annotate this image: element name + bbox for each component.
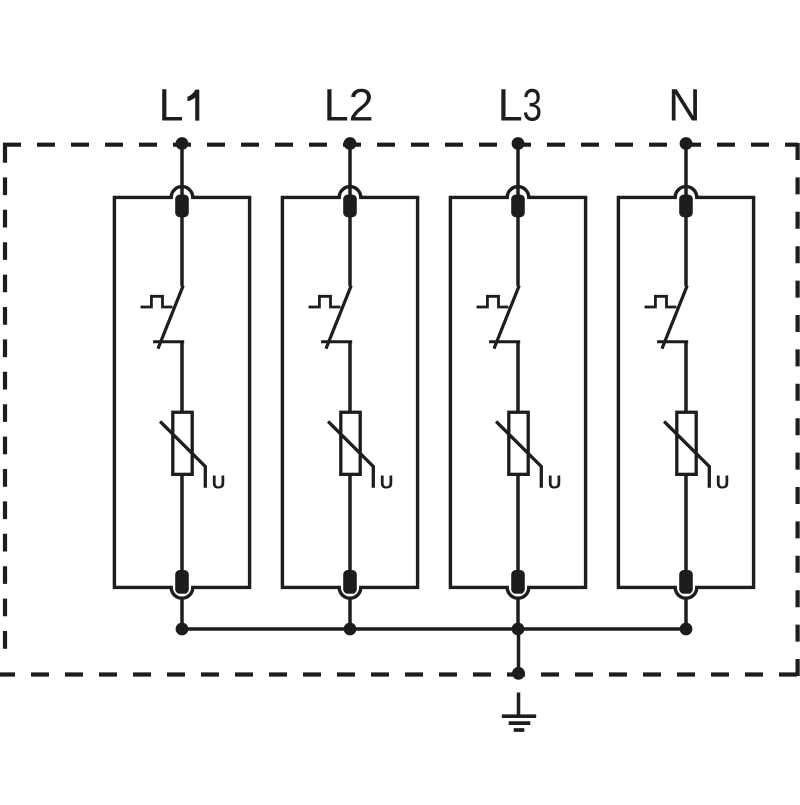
- node L2 junction dot on enclosure boundary: [344, 137, 357, 150]
- disconnector lower contact (module 3): [489, 340, 520, 343]
- wire: lower terminal to PE bus (module 3): [516, 599, 520, 629]
- module 4 upper plug-in terminal contact: [679, 195, 693, 218]
- disconnector lower contact (module 4): [657, 340, 688, 343]
- node L3 label: [498, 79, 542, 130]
- wire: lower terminal to PE bus (module 1): [180, 599, 184, 629]
- protection module 3 (L3) outline box: [450, 187, 585, 599]
- junction dot module 1 on PE bus: [176, 623, 189, 636]
- module 3 upper plug-in terminal contact: [511, 195, 525, 218]
- junction dot module 4 on PE bus: [680, 623, 693, 636]
- wire: upper terminal to disconnector (module 2): [348, 215, 352, 286]
- PE bus wire: [182, 627, 686, 631]
- device enclosure dashed boundary: right edge: [795, 143, 799, 676]
- device enclosure dashed boundary: top edge: [3, 143, 798, 147]
- varistor RV1 body (module 1): [173, 412, 192, 474]
- wire: varistor to lower terminal (module 1): [180, 473, 184, 572]
- node N junction dot on enclosure boundary: [680, 137, 693, 150]
- wire: lower terminal to PE bus (module 4): [684, 599, 688, 629]
- svg-text:3: 3: [522, 79, 542, 130]
- thermal trip pulse symbol (module 2): [309, 296, 341, 307]
- module 4 lower plug-in terminal contact: [679, 570, 693, 594]
- wire: disconnector to varistor (module 1): [180, 342, 184, 413]
- ground (earth) symbol: [502, 716, 536, 730]
- wire: boundary to earth symbol: [517, 693, 521, 717]
- thermal trip pulse symbol (module 3): [477, 296, 509, 307]
- varistor RV2 body (module 2): [341, 412, 360, 474]
- thermal disconnector switch blade (module 1): [158, 286, 183, 349]
- thermal disconnector switch blade (module 4): [662, 286, 687, 349]
- varistor RV4 body (module 4): [677, 412, 696, 474]
- wire: disconnector to varistor (module 4): [684, 342, 688, 413]
- wire: PE bus to enclosure boundary: [517, 629, 521, 673]
- wire: node L2 to module 2 upper terminal: [348, 144, 352, 197]
- svg-text:U: U: [212, 472, 226, 493]
- PE junction dot on enclosure boundary: [512, 667, 525, 680]
- wire: upper terminal to disconnector (module 4): [684, 215, 688, 286]
- junction dot module 3 on PE bus: [512, 623, 525, 636]
- protection module 2 (L2) outline box: [282, 187, 417, 599]
- svg-text:U: U: [380, 472, 394, 493]
- svg-text:L2: L2: [324, 80, 374, 131]
- wire: disconnector to varistor (module 3): [516, 342, 520, 413]
- protection module 1 (L1) outline box: [114, 187, 249, 599]
- device enclosure dashed boundary: bottom edge: [0, 672, 798, 676]
- module 1 lower plug-in terminal contact: [175, 570, 189, 594]
- node L1 label: [159, 80, 200, 131]
- disconnector lower contact (module 1): [153, 340, 184, 343]
- svg-text:N: N: [668, 80, 701, 131]
- node L3 junction dot on enclosure boundary: [512, 137, 525, 150]
- junction dot module 2 on PE bus: [344, 623, 357, 636]
- wire: disconnector to varistor (module 2): [348, 342, 352, 413]
- wire: upper terminal to disconnector (module 1): [180, 215, 184, 286]
- varistor RV4 diagonal stroke: [664, 421, 709, 487]
- varistor RV3 diagonal stroke: [496, 421, 541, 487]
- node L1 junction dot on enclosure boundary: [176, 137, 189, 150]
- wire: varistor to lower terminal (module 2): [348, 473, 352, 572]
- wire: lower terminal to PE bus (module 2): [348, 599, 352, 629]
- thermal disconnector switch blade (module 3): [494, 286, 519, 349]
- module 2 upper plug-in terminal contact: [343, 195, 357, 218]
- wire: upper terminal to disconnector (module 3): [516, 215, 520, 286]
- wire: node L3 to module 3 upper terminal: [516, 144, 520, 197]
- disconnector lower contact (module 2): [321, 340, 352, 343]
- varistor RV2 diagonal stroke: [328, 421, 373, 487]
- thermal trip pulse symbol (module 4): [645, 296, 677, 307]
- wire: varistor to lower terminal (module 4): [684, 473, 688, 572]
- wire: node N to module 4 upper terminal: [684, 144, 688, 197]
- wire: node L1 to module 1 upper terminal: [180, 144, 184, 197]
- module 1 upper plug-in terminal contact: [175, 195, 189, 218]
- device enclosure dashed boundary: left edge: [3, 145, 7, 663]
- module 3 lower plug-in terminal contact: [511, 570, 525, 594]
- protection module 4 (N) outline box: [618, 187, 753, 599]
- varistor RV3 body (module 3): [509, 412, 528, 474]
- thermal trip pulse symbol (module 1): [141, 296, 173, 307]
- thermal disconnector switch blade (module 2): [326, 286, 351, 349]
- svg-text:L: L: [159, 80, 184, 131]
- svg-text:U: U: [716, 472, 730, 493]
- module 2 lower plug-in terminal contact: [343, 570, 357, 594]
- svg-text:L: L: [498, 80, 523, 131]
- varistor RV1 diagonal stroke: [160, 421, 205, 487]
- wire: varistor to lower terminal (module 3): [516, 473, 520, 572]
- svg-text:U: U: [548, 472, 562, 493]
